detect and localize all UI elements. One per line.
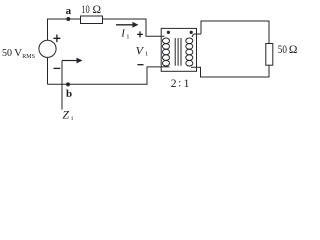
svg-text:1: 1 (126, 33, 129, 40)
svg-text:i: i (71, 115, 73, 122)
svg-text:a: a (66, 5, 72, 17)
svg-text:Ω: Ω (93, 4, 102, 16)
svg-text:Z: Z (62, 108, 69, 122)
svg-text:RMS: RMS (22, 54, 35, 60)
svg-text:b: b (66, 88, 72, 100)
svg-text:Ω: Ω (289, 44, 298, 56)
svg-text:V: V (136, 43, 145, 57)
svg-text:10: 10 (81, 4, 90, 16)
svg-text:50: 50 (278, 44, 287, 56)
svg-text:1: 1 (145, 51, 148, 58)
svg-text:2: 2 (171, 78, 177, 90)
svg-text:50: 50 (2, 47, 12, 59)
svg-text::: : (178, 77, 181, 89)
svg-text:V: V (14, 47, 22, 59)
svg-text:I: I (120, 27, 126, 39)
svg-text:1: 1 (184, 78, 190, 90)
